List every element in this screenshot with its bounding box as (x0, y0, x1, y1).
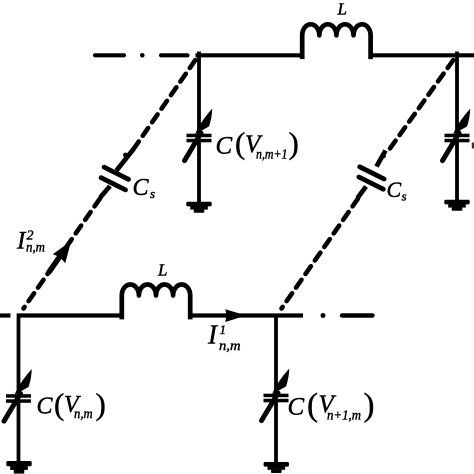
svg-text:(: ( (235, 126, 245, 161)
label I^2_n,m (16, 227, 45, 255)
varactor C(V_n+1,m) (262, 369, 290, 421)
label Cs (left) (133, 175, 156, 201)
wire: bottom rail solid from node B to inductor L2 (17, 313, 124, 317)
wire: bottom rail dash-dot right of node C (321, 313, 373, 318)
capacitor Cs (right diagonal): plates (359, 167, 384, 189)
svg-text:n,m: n,m (26, 241, 45, 256)
wire: solid lead into right Cs (upper) (377, 151, 386, 167)
wire: right diagonal dashed (upper part, node D toward Cs) (389, 60, 454, 150)
arrow I1 on bottom rail (current direction right) (225, 309, 246, 322)
node B column: wire down to varactor (17, 314, 21, 396)
svg-text:C: C (133, 175, 150, 201)
wire: top rail dash-dot (left of node A) (95, 53, 188, 58)
wire: bottom rail solid from inductor L2 through node C (189, 313, 304, 317)
label C(V_n,m+1) (216, 126, 299, 163)
label C (cut off at right edge) (472, 143, 474, 149)
svg-text:L: L (157, 261, 167, 280)
wire: from varactor down to ground (197, 142, 201, 204)
wire: wiggle on left Cs upper lead (123, 153, 128, 158)
svg-text:C: C (387, 177, 402, 202)
wire: right diagonal dashed (lower part, Cs toward node C) (282, 199, 359, 309)
wire: solid lead out of right Cs (lower) (358, 187, 367, 199)
wire: varactor to ground (17, 402, 21, 462)
wire: left diagonal dashed (upper part, node A toward Cs) (133, 60, 195, 149)
wire: top rail solid from inductor L1 to right edge (370, 53, 474, 57)
svg-text:): ) (364, 388, 375, 424)
ground (below C(V_n,m)) (6, 461, 31, 474)
svg-text:L: L (337, 0, 347, 19)
label C(V_n,m) (37, 387, 106, 422)
inductor L1 (top) (302, 24, 370, 57)
wire: varactor to ground (274, 402, 278, 464)
varactor (right, label cut off at edge) (443, 109, 471, 161)
svg-text:): ) (289, 126, 299, 161)
varactor C(V_n,m) (4, 369, 32, 421)
wire: wiggle on right Cs upper lead (381, 154, 386, 159)
label Cs (right) (387, 177, 407, 204)
svg-text:n,m+1: n,m+1 (256, 148, 288, 163)
wire: left diagonal dashed (lower part, Cs toward node B) (24, 199, 101, 309)
node C: junction of bottom rail, right diagonal, column at x=276 (274, 314, 278, 395)
svg-text:n+1,m: n+1,m (327, 408, 361, 423)
arrow I2 on left diagonal (current direction up-right) (49, 241, 71, 272)
node A: junction of top rail, left diagonal and column at x=199 (197, 52, 201, 135)
svg-text:C: C (288, 393, 305, 420)
ground (below right varactor) (444, 200, 469, 211)
svg-text:n,m: n,m (74, 407, 93, 422)
varactor C(V_n,m+1) (185, 109, 213, 161)
svg-text:s: s (150, 186, 155, 201)
svg-text:(: ( (307, 388, 318, 424)
label C(V_n+1,m) (288, 388, 375, 424)
wire: solid lead into Cs (upper) (117, 150, 134, 171)
wire: top rail solid from node A to inductor L1 (196, 53, 304, 57)
label I^1_n,m (207, 320, 241, 355)
capacitor Cs (left diagonal): plates (101, 167, 128, 190)
wire: varactor to ground (455, 142, 459, 202)
wire: bottom rail dash at left edge (0, 313, 11, 317)
svg-text:C: C (216, 133, 233, 160)
ground (below C(V_n,m+1)) (186, 202, 211, 213)
svg-text:n,m: n,m (219, 339, 241, 354)
svg-text:): ) (96, 387, 106, 422)
svg-text:(: ( (54, 387, 64, 422)
svg-text:C: C (37, 393, 54, 419)
svg-text:s: s (402, 189, 407, 204)
svg-text:1: 1 (220, 322, 227, 337)
wire: solid lead out of Cs (lower) (100, 186, 110, 198)
ground (below C(V_n+1,m)) (264, 462, 289, 473)
inductor L2 (bottom) (122, 285, 190, 318)
node D: junction of top rail, right diagonal, column at x=457 (455, 52, 459, 135)
